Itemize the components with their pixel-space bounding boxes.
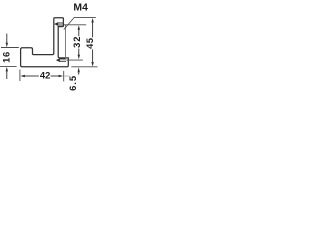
dim 16: upper arrow tail — [6, 34, 8, 43]
svg-text:32: 32 — [71, 36, 82, 48]
dim 32: lower tail — [78, 49, 80, 55]
dim 42: line right segment — [51, 75, 60, 77]
dim 42: line left segment — [25, 75, 39, 77]
extension line hole1 level — [64, 24, 86, 26]
svg-text:42: 42 — [40, 70, 50, 81]
dim 42: right arrowhead — [59, 75, 64, 77]
dim 45: upper arrowhead (up) — [91, 18, 93, 23]
dim 42: overrun right — [64, 75, 69, 77]
dim 42: right extension — [63, 71, 65, 82]
hole M4 upper: thread bars — [58, 22, 63, 25]
dim 16: top extension — [1, 47, 19, 49]
svg-text:M4: M4 — [73, 3, 88, 14]
aux vertical line (hole axis) — [64, 25, 66, 60]
extension line top (under M4) — [74, 16, 96, 18]
dim 6.5: lower arrowhead (up) — [78, 67, 80, 72]
svg-text:16: 16 — [0, 51, 11, 63]
svg-text:6.5: 6.5 — [67, 75, 78, 91]
hole M4 upper: arrow — [54, 22, 58, 26]
dim 42: left arrowhead — [20, 75, 25, 77]
leader diagonal to M4 — [64, 18, 74, 30]
dim 32: lower arrowhead (down) — [78, 55, 80, 60]
dim 6.5: tail below arrow — [78, 72, 80, 74]
dim 16: upper arrowhead (down) — [6, 43, 8, 48]
hole M4 lower: arrow — [56, 58, 60, 62]
dim 16: bottom extension — [0, 66, 17, 68]
part outline (hook bracket side view) — [21, 18, 69, 67]
dim 45: upper tail — [92, 22, 94, 37]
extension line bottom right — [71, 66, 97, 68]
dim 16: lower arrowhead (up) — [6, 67, 8, 72]
dim 16: lower arrow tail — [6, 71, 8, 79]
dim 32: upper tail — [78, 29, 80, 36]
svg-text:45: 45 — [84, 38, 95, 49]
extension line hole2 centerline — [66, 59, 83, 61]
dim 45: lower arrowhead (down) — [91, 62, 93, 67]
dim 32: upper arrowhead (up) — [78, 25, 80, 30]
dim 45: lower tail — [92, 49, 94, 62]
dim 42: left extension — [19, 70, 21, 82]
hole M4 lower: thread bars — [60, 58, 66, 61]
